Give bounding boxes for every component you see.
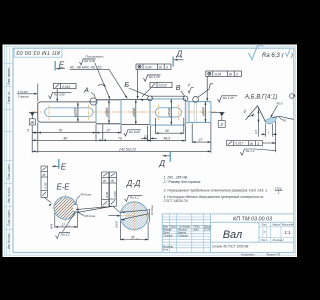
svg-text:В: В: [176, 83, 181, 92]
svg-text:Масштаб: Масштаб: [282, 224, 294, 227]
svg-text:Формат А3: Формат А3: [267, 253, 281, 257]
svg-text:79: 79: [118, 136, 122, 140]
svg-text:0,5: 0,5: [254, 129, 258, 133]
svg-text:А: А: [83, 86, 89, 95]
svg-text:0,04: 0,04: [215, 72, 222, 76]
svg-text:Инв. № дубл.: Инв. № дубл.: [6, 187, 10, 203]
svg-text:З: З: [257, 142, 259, 146]
svg-text:Справ. №: Справ. №: [6, 92, 10, 104]
svg-text:Т.контр.: Т.контр.: [163, 234, 173, 237]
svg-text:0,08: 0,08: [113, 191, 117, 197]
svg-text:40: 40: [165, 129, 169, 133]
svg-text:3. Неуказанные предельные откл: 3. Неуказанные предельные отклонения раз…: [164, 189, 268, 193]
svg-text:подп.: подп.: [193, 229, 200, 232]
svg-text:36: 36: [131, 236, 135, 240]
svg-text:З: З: [220, 122, 223, 127]
svg-text:27: 27: [198, 138, 203, 142]
svg-text:): ): [290, 53, 293, 59]
svg-text:Ra 1,25: Ra 1,25: [149, 75, 160, 79]
svg-text:0,017: 0,017: [235, 142, 243, 146]
svg-text:3 фаски: 3 фаски: [18, 94, 30, 98]
svg-text:⌀38k6: ⌀38k6: [105, 107, 109, 117]
svg-text:Сидоров: Сидоров: [178, 234, 189, 237]
svg-text:3,5: 3,5: [144, 134, 149, 138]
svg-text:R0,4max: R0,4max: [81, 192, 92, 196]
svg-text:10,1max: 10,1max: [150, 204, 154, 215]
svg-text:0,04: 0,04: [145, 65, 152, 69]
svg-text:Ra 6,3: Ra 6,3: [262, 53, 280, 59]
svg-text:ГОСТ 14034-74.: ГОСТ 14034-74.: [164, 199, 189, 203]
svg-text:⌀45к6: ⌀45к6: [167, 108, 171, 117]
svg-text:Лист: Лист: [260, 239, 267, 242]
svg-text:1,5×45°: 1,5×45°: [18, 90, 30, 94]
svg-text:Утв.: Утв.: [163, 248, 169, 251]
svg-text:0,08: 0,08: [44, 182, 48, 188]
svg-text:2: 2: [277, 191, 280, 195]
svg-text:0,015: 0,015: [62, 85, 70, 89]
svg-text:Д: Д: [158, 159, 165, 168]
svg-text:1:1: 1:1: [284, 230, 291, 235]
svg-text:Ra 3,2: Ra 3,2: [130, 195, 139, 199]
svg-text:Б: Б: [124, 80, 129, 89]
svg-text:Полировать: Полировать: [86, 54, 105, 58]
svg-text:Подп. и дата: Подп. и дата: [6, 210, 10, 226]
svg-text:10Н9: 10Н9: [114, 221, 118, 228]
svg-text:0,08: 0,08: [105, 191, 109, 197]
svg-text:Е-Е: Е-Е: [57, 182, 71, 191]
svg-text:Ra 1,2: Ra 1,2: [246, 149, 255, 153]
svg-text:Лит.: Лит.: [261, 224, 268, 227]
svg-text:Ra 0,80: Ra 0,80: [129, 130, 140, 134]
svg-text:Подп. и дата: Подп. и дата: [6, 164, 10, 180]
svg-text:Копировал: Копировал: [241, 253, 255, 257]
svg-text:Перв. примен.: Перв. примен.: [6, 67, 10, 85]
svg-text:КП ТМ 03.00.03: КП ТМ 03.00.03: [16, 49, 60, 55]
svg-text:1. 260...285 НВ.: 1. 260...285 НВ.: [164, 175, 189, 179]
svg-text:Д: Д: [176, 50, 183, 59]
svg-text:⌀42к6: ⌀42к6: [132, 108, 136, 117]
svg-text:40...48 HRC 49...52: 40...48 HRC 49...52: [70, 65, 102, 69]
svg-text:12.05: 12.05: [204, 229, 211, 232]
svg-text:Ra 0,80: Ra 0,80: [54, 92, 65, 96]
svg-text:37: 37: [107, 129, 111, 133]
svg-text:Инв. № подл.: Инв. № подл.: [6, 233, 10, 249]
svg-text:Листов 1: Листов 1: [272, 239, 285, 242]
svg-text:R0,5: R0,5: [277, 102, 283, 106]
svg-text:Масса: Масса: [273, 224, 281, 227]
svg-text:Ra 3,2: Ra 3,2: [61, 232, 70, 236]
svg-text:Сталь 45 ГОСТ 1050-88: Сталь 45 ГОСТ 1050-88: [212, 245, 249, 249]
svg-text:R0,4max: R0,4max: [85, 214, 96, 218]
svg-text:48,5: 48,5: [164, 137, 171, 141]
svg-text:80: 80: [64, 136, 68, 140]
svg-text:Е: Е: [61, 163, 67, 172]
svg-text:Д-Д: Д-Д: [126, 179, 141, 188]
svg-text:27: 27: [61, 223, 66, 227]
svg-text:Ra 0,40: Ra 0,40: [84, 59, 95, 63]
svg-text:⌀30к6: ⌀30к6: [201, 107, 205, 116]
svg-text:А,Б,В,Г(4:1): А,Б,В,Г(4:1): [244, 94, 278, 100]
svg-text:R1: R1: [283, 119, 287, 123]
svg-text:242,5±0,23: 242,5±0,23: [118, 147, 136, 151]
svg-text:Е: Е: [59, 60, 65, 69]
svg-text:КП ТМ 03.00.03: КП ТМ 03.00.03: [233, 216, 272, 222]
svg-text:70: 70: [59, 129, 63, 133]
svg-text:0,012: 0,012: [159, 84, 167, 88]
svg-text:2. *Размер для справок.: 2. *Размер для справок.: [163, 180, 202, 184]
svg-text:Ra 1,25: Ra 1,25: [223, 96, 234, 100]
svg-text:8N9: 8N9: [50, 223, 54, 229]
svg-text:Вал: Вал: [223, 229, 243, 241]
svg-text:⌀32h9: ⌀32h9: [74, 108, 78, 118]
svg-text:5: 5: [27, 129, 29, 133]
